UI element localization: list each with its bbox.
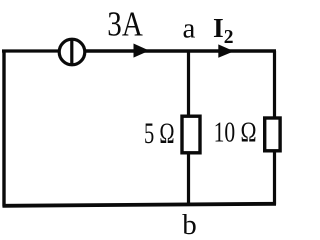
current source xyxy=(59,39,85,65)
wire left xyxy=(2,50,5,207)
arrowhead current-source xyxy=(134,44,150,58)
wire top-right segment xyxy=(85,49,276,52)
arrowhead I2 xyxy=(218,44,234,57)
wire node-a branch xyxy=(187,51,190,205)
wire bottom xyxy=(3,204,277,206)
svg-text:a: a xyxy=(183,13,196,45)
svg-text:3A: 3A xyxy=(107,5,143,44)
resistor R2 10Ω body xyxy=(265,118,280,151)
wire right xyxy=(273,51,276,205)
wire top-left segment xyxy=(2,49,59,52)
svg-text:5 Ω: 5 Ω xyxy=(144,117,175,150)
svg-text:10 Ω: 10 Ω xyxy=(214,118,257,149)
svg-text:b: b xyxy=(182,209,197,240)
resistor R1 5Ω body xyxy=(182,116,200,153)
